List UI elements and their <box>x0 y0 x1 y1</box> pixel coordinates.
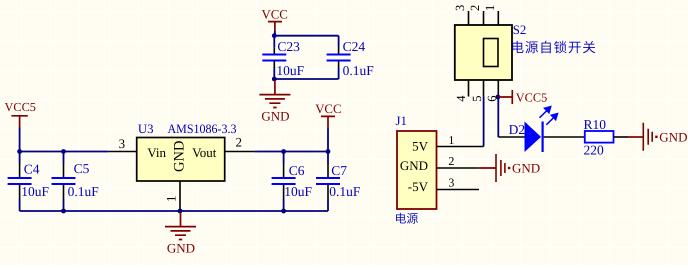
power port VCC5 (at S2 pin 6) <box>498 90 547 104</box>
svg-text:-5V: -5V <box>408 179 429 194</box>
svg-text:3: 3 <box>119 136 126 151</box>
svg-text:2: 2 <box>448 154 454 168</box>
svg-text:C23: C23 <box>277 39 300 54</box>
svg-text:GND: GND <box>261 108 289 123</box>
svg-text:GND: GND <box>400 158 428 173</box>
capacitor C24 upper pin <box>338 47 340 54</box>
svg-text:1: 1 <box>483 5 497 11</box>
ground GND stem (after R10) <box>628 136 643 138</box>
svg-text:VCC: VCC <box>262 7 288 21</box>
wire VCC stem to net <box>327 128 329 152</box>
power port VCC (top) <box>262 7 288 31</box>
node junction C23 bottom <box>272 77 277 82</box>
svg-text:C5: C5 <box>74 161 90 176</box>
ground below C23 bars <box>259 95 290 108</box>
ground below C23 stem <box>274 80 276 95</box>
wire bottom ground bus <box>20 210 328 212</box>
svg-text:VCC5: VCC5 <box>516 90 547 104</box>
pin 1 (U3 GND) <box>179 181 181 210</box>
svg-text:5: 5 <box>470 96 484 102</box>
pin 1 (J1) <box>437 146 484 148</box>
wire U3 Vout to VCC <box>255 151 328 153</box>
switch S2 button rectangle <box>484 39 499 67</box>
wire C24 top lead down <box>338 36 340 47</box>
svg-text:VCC5: VCC5 <box>5 100 36 114</box>
svg-text:3: 3 <box>453 5 467 11</box>
svg-text:GND: GND <box>512 161 540 176</box>
capacitor C5 plates <box>52 178 76 184</box>
node junction C5 top <box>61 149 66 154</box>
svg-text:GND: GND <box>167 240 195 255</box>
svg-text:AMS1086-3.3: AMS1086-3.3 <box>168 122 237 136</box>
wire top-left net <box>20 151 109 153</box>
pin R10 right <box>614 136 629 138</box>
svg-text:GND: GND <box>172 141 188 172</box>
capacitor C7 top lead <box>327 152 329 164</box>
svg-text:0.1uF: 0.1uF <box>343 63 375 78</box>
svg-text:U3: U3 <box>138 122 154 136</box>
svg-text:4: 4 <box>454 95 468 102</box>
svg-text:Vin: Vin <box>147 145 166 160</box>
node junction VCC5/C4 <box>17 149 22 154</box>
svg-text:10uF: 10uF <box>276 63 304 78</box>
capacitor C24 lower pin <box>338 61 340 68</box>
capacitor C4 bottom lead <box>19 185 21 199</box>
wire C23-C24 bottom <box>274 78 338 80</box>
capacitor C23 plates <box>262 55 286 61</box>
svg-text:5V: 5V <box>412 138 429 153</box>
capacitor C6 plates <box>272 178 296 184</box>
svg-text:C6: C6 <box>289 163 305 178</box>
LED arrows (D2) <box>540 107 558 125</box>
node junction S2 pin6 / VCC5 <box>496 95 501 100</box>
resistor R10 body <box>585 131 614 143</box>
capacitor C5 bottom lead <box>63 185 65 199</box>
power port VCC5 (left) <box>5 100 36 128</box>
capacitor C7 plates <box>316 178 340 184</box>
svg-text:0.1uF: 0.1uF <box>68 184 100 199</box>
svg-text:C4: C4 <box>24 161 40 176</box>
node junction C23 top <box>272 33 277 38</box>
node junction U3 pin1 on bus <box>178 209 183 214</box>
label 电源 (J1) <box>396 213 418 224</box>
svg-text:C24: C24 <box>343 39 366 54</box>
capacitor C7 bottom lead <box>327 185 329 199</box>
wire D2 cathode to R10 <box>544 136 585 138</box>
capacitor C5 top lead <box>63 152 65 164</box>
svg-text:2: 2 <box>236 135 243 150</box>
power port VCC (right of U3) <box>315 102 341 128</box>
svg-text:3: 3 <box>448 175 454 189</box>
diode D2 (LED) triangle <box>525 122 542 153</box>
ground below U3 bars <box>165 227 196 240</box>
pin 1 (S2 top-right) <box>497 11 499 25</box>
capacitor C4 plates <box>8 178 32 184</box>
node junction C6 top <box>281 149 286 154</box>
capacitor C24 plates <box>327 55 351 61</box>
node junction C7/VCC top <box>326 149 331 154</box>
label 电源自锁开关 (S2) <box>512 41 595 54</box>
diode D2 cathode bar <box>541 122 543 153</box>
svg-text:GND: GND <box>659 129 687 144</box>
capacitor C6 top lead <box>283 152 285 164</box>
svg-text:J1: J1 <box>396 114 407 128</box>
ground GND stem (J1 pin 2) <box>479 167 496 169</box>
wire S2 pin5 to J1 pin1 <box>483 97 485 147</box>
node junction C6 bottom <box>281 209 286 214</box>
svg-text:D2: D2 <box>509 122 525 137</box>
svg-text:R10: R10 <box>584 117 607 132</box>
pin 3 (S2 top-left) <box>468 11 470 25</box>
svg-text:10uF: 10uF <box>21 184 49 199</box>
svg-text:2: 2 <box>468 5 482 11</box>
pin 2 (S2 top-middle) <box>483 11 485 25</box>
capacitor C6 bottom lead <box>283 185 285 199</box>
svg-text:S2: S2 <box>513 23 527 37</box>
capacitor C23 top lead <box>273 36 275 48</box>
wire VCC stem (top) <box>274 31 276 36</box>
svg-text:VCC: VCC <box>315 102 341 116</box>
switch S2 body <box>455 25 512 80</box>
node junction C5 bottom <box>61 209 66 214</box>
pin 6 (S2 bottom-right) <box>497 80 499 97</box>
wire S2 pin6 to D2 <box>497 97 499 137</box>
capacitor C23 bottom lead <box>273 61 275 67</box>
pin 3 (J1) <box>437 189 480 191</box>
svg-text:220: 220 <box>584 142 605 157</box>
svg-text:1: 1 <box>448 133 454 147</box>
wire C23-C24 top <box>274 35 338 37</box>
svg-text:10uF: 10uF <box>284 184 312 199</box>
ground at J1 pin2 bars <box>496 154 505 182</box>
wire D2 anode pin <box>498 136 524 138</box>
pin 5 (S2 bottom-middle) <box>483 80 485 97</box>
connector J1 body <box>397 131 437 209</box>
pin 4 (S2 bottom-left) <box>468 80 470 97</box>
pin 2 (U3 Vout) <box>225 151 255 153</box>
ground below U3 stem <box>180 212 182 227</box>
svg-text:1: 1 <box>164 196 179 203</box>
svg-text:0.1uF: 0.1uF <box>329 184 361 199</box>
capacitor C4 top lead <box>19 152 21 164</box>
ground after R10 bars <box>643 123 652 151</box>
op-amp U3 body (AMS1086-3.3 regulator) <box>137 138 225 182</box>
pin 2 (J1) <box>437 167 479 169</box>
svg-text:Vout: Vout <box>192 145 217 160</box>
wire VCC5 stem <box>19 128 21 152</box>
wire C24 bottom lead <box>338 68 340 79</box>
pin 3 (U3 Vin) <box>109 151 137 153</box>
svg-text:C7: C7 <box>331 163 347 178</box>
